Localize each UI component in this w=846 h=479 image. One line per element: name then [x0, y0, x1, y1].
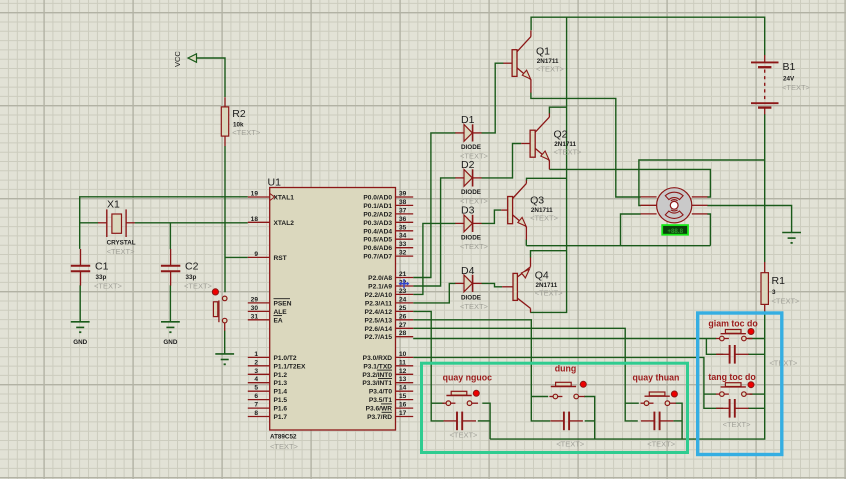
svg-text:10: 10	[399, 351, 407, 358]
U1 pin 8 (P1.7)	[248, 410, 288, 421]
svg-text:dung: dung	[555, 364, 577, 374]
svg-text:CRYSTAL: CRYSTAL	[107, 240, 136, 247]
svg-text:26: 26	[399, 313, 407, 320]
U1 pin 37 (P0.2/AD2)	[363, 207, 413, 218]
wire crystal right to XTAL2	[135, 222, 248, 224]
svg-text:4: 4	[254, 376, 258, 383]
U1 pin 14 (P3.4/T0)	[369, 385, 413, 396]
wire D2 cathode to Q2 base	[482, 144, 522, 178]
svg-text:P1.5: P1.5	[274, 397, 288, 404]
svg-text:34: 34	[399, 233, 407, 240]
U1 pin 25 (P2.4/A12)	[365, 305, 414, 316]
svg-text:P2.0/A8: P2.0/A8	[368, 275, 392, 282]
svg-text:<TEXT>: <TEXT>	[460, 242, 489, 251]
wire supply vertical drop	[530, 17, 566, 312]
wire P2.7 pin28 to giam-toc-do	[413, 339, 723, 355]
svg-text:quay nguoc: quay nguoc	[443, 372, 492, 382]
svg-text:RST: RST	[274, 255, 287, 262]
svg-text:Q2: Q2	[554, 129, 568, 141]
svg-text:B1: B1	[783, 61, 796, 73]
svg-text:<TEXT>: <TEXT>	[460, 302, 489, 311]
U1 pin 35 (P0.4/AD4)	[363, 224, 413, 235]
U1 pin 12 (P3.2/INT0)	[362, 368, 413, 379]
svg-text:29: 29	[251, 296, 259, 303]
wire Q1 emitter to motor top-left	[531, 93, 641, 198]
transistor Q4	[502, 257, 563, 312]
svg-text:XTAL1: XTAL1	[274, 195, 295, 202]
svg-text:<TEXT>: <TEXT>	[782, 83, 811, 92]
wire battery negative rail	[639, 114, 765, 262]
motor M1	[641, 188, 708, 223]
capacitor (quay nguoc)	[444, 412, 479, 440]
button dung	[549, 364, 586, 399]
svg-text:+88.8: +88.8	[667, 228, 683, 235]
wire motor bottom bus	[526, 245, 710, 247]
U1 pin 21 (P2.0/A8)	[368, 271, 413, 282]
svg-text:<TEXT>: <TEXT>	[647, 440, 676, 449]
svg-text:<TEXT>: <TEXT>	[554, 148, 583, 157]
svg-text:VCC: VCC	[173, 51, 182, 67]
svg-text:24: 24	[399, 296, 407, 303]
svg-text:C1: C1	[95, 261, 109, 273]
svg-text:9: 9	[254, 251, 258, 258]
svg-text:<TEXT>: <TEXT>	[769, 359, 798, 368]
svg-text:P3.7/RD: P3.7/RD	[367, 414, 392, 421]
U1 pin 15 (P3.5/T1)	[369, 393, 413, 404]
U1 pin 36 (P0.3/AD3)	[363, 216, 413, 227]
capacitor (dung)	[550, 412, 584, 449]
U1 pin 24 (P2.3/A11)	[365, 296, 413, 307]
capacitor (tang toc do)	[716, 399, 751, 429]
wire C1 to ground	[79, 285, 81, 322]
svg-text:P2.1/A9: P2.1/A9	[368, 284, 392, 291]
button quay thuan	[633, 372, 680, 405]
wire P2.3 pin24 to D4 anode	[413, 283, 455, 303]
wire quay-thuan right node	[673, 403, 682, 439]
svg-text:R2: R2	[232, 108, 246, 120]
wire VCC to R2	[197, 58, 226, 97]
wire crystal left stub	[80, 222, 99, 224]
motor speed display	[662, 225, 688, 235]
reset push button	[212, 289, 227, 323]
wire Q2 emitter to motor top-right	[549, 169, 710, 197]
U1 pin 38 (P0.1/AD1)	[363, 199, 413, 210]
U1 pin 6 (P1.5)	[248, 393, 288, 404]
svg-text:Q4: Q4	[535, 269, 549, 281]
svg-text:1: 1	[254, 351, 258, 358]
U1 pin 7 (P1.6)	[248, 402, 288, 413]
svg-text:P0.5/AD5: P0.5/AD5	[363, 237, 392, 244]
U1 pin 17 (P3.7/RD)	[367, 410, 413, 421]
svg-text:D4: D4	[461, 265, 475, 277]
svg-text:33p: 33p	[186, 274, 197, 281]
U1 pin 10 (P3.0/RXD)	[363, 351, 414, 362]
U1 pin 29 (PSEN)	[248, 296, 292, 307]
ground (reset button)	[215, 354, 234, 365]
svg-text:P3.4/T0: P3.4/T0	[369, 389, 392, 396]
transistor Q3	[501, 180, 559, 239]
ground (motor return)	[782, 233, 801, 244]
U1 pin 3 (P1.2)	[248, 368, 288, 379]
highlight box (blue) around speed buttons	[698, 313, 782, 455]
U1 pin 5 (P1.4)	[248, 385, 288, 396]
wire motor mid-right to ground	[707, 206, 791, 233]
svg-text:X1: X1	[107, 199, 120, 211]
U1 pin 22 (P2.1/A9)	[368, 280, 413, 291]
svg-text:3: 3	[254, 368, 258, 375]
svg-text:D2: D2	[461, 159, 475, 171]
resistor R2	[221, 97, 261, 146]
svg-text:P2.5/A13: P2.5/A13	[365, 317, 393, 324]
diode D4	[455, 265, 488, 311]
diode D2	[455, 159, 488, 206]
svg-text:19: 19	[251, 191, 259, 198]
svg-text:<TEXT>: <TEXT>	[536, 65, 565, 74]
wire reset button to ground	[224, 323, 226, 354]
svg-text:giam toc do: giam toc do	[708, 319, 758, 329]
wire Q3 collector to rail	[527, 178, 567, 180]
svg-text:21: 21	[399, 271, 407, 278]
svg-text:12: 12	[399, 368, 407, 375]
svg-text:U1: U1	[268, 177, 282, 189]
svg-text:38: 38	[399, 199, 407, 206]
svg-text:28: 28	[399, 330, 407, 337]
svg-text:DIODE: DIODE	[461, 295, 481, 302]
button tang toc do	[708, 372, 756, 397]
wire P2.2 pin23 to D3 anode	[413, 223, 455, 294]
svg-text:18: 18	[251, 216, 259, 223]
svg-text:P0.2/AD2: P0.2/AD2	[363, 211, 392, 218]
svg-text:16: 16	[399, 402, 407, 409]
capacitor C1	[71, 249, 123, 291]
U1 pin 23 (P2.2/A10)	[365, 288, 414, 299]
U1 pin 18 (XTAL2)	[248, 216, 294, 227]
wire Q2 collector to rail	[549, 107, 566, 113]
highlight box (teal) around direction buttons	[422, 363, 688, 452]
svg-text:XTAL2: XTAL2	[274, 220, 295, 227]
svg-text:DIODE: DIODE	[461, 144, 481, 151]
wire P2.4 pin25 to quay-nguoc	[413, 311, 444, 421]
svg-text:ALE: ALE	[274, 309, 288, 316]
wire dung right node	[584, 397, 595, 440]
button giam toc do	[708, 319, 758, 341]
svg-text:33p: 33p	[96, 274, 107, 281]
svg-text:P0.4/AD4: P0.4/AD4	[363, 228, 392, 235]
svg-text:15: 15	[399, 393, 407, 400]
U1 pin 30 (ALE)	[248, 305, 287, 316]
wire top supply rail	[531, 17, 765, 55]
U1 pin 11 (P3.1/TXD)	[363, 359, 413, 370]
svg-text:7: 7	[254, 402, 258, 409]
svg-text:P0.0/AD0: P0.0/AD0	[363, 195, 392, 202]
capacitor C2	[161, 249, 213, 291]
svg-text:<TEXT>: <TEXT>	[184, 282, 213, 291]
svg-text:24V: 24V	[783, 76, 795, 83]
resistor R1	[761, 262, 800, 311]
svg-text:P1.2: P1.2	[274, 372, 288, 379]
svg-text:P3.0/RXD: P3.0/RXD	[363, 355, 393, 362]
wire giam switch right	[748, 338, 765, 340]
pin cursor marker at pin 22	[399, 279, 410, 288]
svg-text:P3.5/T1: P3.5/T1	[369, 397, 392, 404]
U1 pin 32 (P0.7/AD7)	[363, 250, 413, 261]
svg-text:DIODE: DIODE	[461, 189, 481, 196]
svg-text:<TEXT>: <TEXT>	[723, 420, 752, 429]
wire D1 cathode to Q1 base	[482, 63, 504, 133]
svg-text:31: 31	[251, 313, 259, 320]
svg-text:<TEXT>: <TEXT>	[450, 431, 479, 440]
diode D3	[455, 205, 488, 252]
svg-text:P1.0/T2: P1.0/T2	[274, 355, 297, 362]
svg-text:35: 35	[399, 224, 407, 231]
U1 pin 13 (P3.3/INT1)	[362, 376, 413, 387]
U1 pin 2 (P1.1/T2EX)	[248, 359, 306, 370]
U1 pin 28 (P2.7/A15)	[365, 330, 414, 341]
wire Q3 emitter down	[525, 240, 527, 246]
svg-text:25: 25	[399, 305, 407, 312]
svg-text:5: 5	[254, 385, 258, 392]
wire D4 cathode to Q4 base	[482, 283, 503, 286]
svg-text:P0.3/AD3: P0.3/AD3	[363, 220, 392, 227]
IC U1 AT89C52 body	[268, 177, 396, 452]
svg-text:P2.2/A10: P2.2/A10	[365, 292, 393, 299]
svg-text:P0.1/AD1: P0.1/AD1	[363, 203, 392, 210]
svg-text:P3.6/WR: P3.6/WR	[366, 406, 393, 413]
svg-text:<TEXT>: <TEXT>	[772, 297, 801, 306]
svg-text:P1.4: P1.4	[274, 389, 288, 396]
transistor Q2	[521, 113, 582, 169]
capacitor (giam toc do)	[716, 345, 798, 368]
U1 pin 27 (P2.6/A14)	[365, 322, 414, 333]
svg-text:<TEXT>: <TEXT>	[94, 282, 123, 291]
svg-text:P1.1/T2EX: P1.1/T2EX	[274, 363, 306, 370]
wire quay-nguoc right node	[478, 403, 490, 439]
battery B1	[751, 55, 811, 114]
svg-text:Q3: Q3	[530, 194, 544, 206]
wire Q4 emitter to rail	[531, 251, 567, 258]
svg-text:<TEXT>: <TEXT>	[530, 214, 559, 223]
svg-text:2: 2	[254, 359, 258, 366]
U1 pin 26 (P2.5/A13)	[365, 313, 414, 324]
svg-text:32: 32	[399, 250, 407, 257]
wire C2 tap	[169, 223, 171, 249]
svg-text:P2.4/A12: P2.4/A12	[365, 309, 393, 316]
wire C2 to ground	[169, 285, 171, 322]
svg-text:14: 14	[399, 385, 407, 392]
wire P3.0 pin10 to tang-toc-do	[413, 357, 723, 408]
wire tang cap right	[748, 407, 765, 409]
U1 pin 39 (P0.0/AD0)	[363, 191, 413, 202]
svg-text:3: 3	[772, 289, 776, 296]
svg-text:P2.7/A15: P2.7/A15	[365, 334, 393, 341]
U1 pin 34 (P0.5/AD5)	[363, 233, 413, 244]
svg-text:R1: R1	[772, 275, 786, 287]
power symbol VCC	[173, 51, 197, 67]
svg-text:D1: D1	[461, 114, 475, 126]
svg-text:30: 30	[251, 305, 259, 312]
svg-text:P0.6/AD6: P0.6/AD6	[363, 245, 392, 252]
U1 pin 1 (P1.0/T2)	[248, 351, 297, 362]
U1 pin 33 (P0.6/AD6)	[363, 241, 413, 252]
svg-text:<TEXT>: <TEXT>	[107, 247, 136, 256]
wire R2 to RST node	[224, 146, 226, 292]
svg-text:P2.3/A11: P2.3/A11	[365, 300, 392, 307]
svg-text:<TEXT>: <TEXT>	[535, 289, 564, 298]
wire R1 to button bus	[490, 311, 765, 439]
svg-text:17: 17	[399, 410, 407, 417]
U1 pin 4 (P1.3)	[248, 376, 288, 387]
svg-text:<TEXT>: <TEXT>	[232, 128, 261, 137]
svg-text:PSEN: PSEN	[274, 300, 292, 307]
svg-text:DIODE: DIODE	[461, 235, 481, 242]
svg-text:P3.2/INT0: P3.2/INT0	[362, 372, 392, 379]
svg-text:GND: GND	[163, 339, 177, 346]
ground (C1)	[71, 322, 90, 346]
wire P2.5 pin26 to dung	[413, 320, 550, 421]
button quay nguoc	[442, 372, 492, 405]
capacitor (quay thuan)	[641, 412, 676, 449]
svg-text:tang toc do: tang toc do	[708, 372, 756, 382]
svg-text:P1.6: P1.6	[274, 406, 288, 413]
wire D3 cathode to Q3 base	[482, 210, 502, 223]
svg-text:<TEXT>: <TEXT>	[556, 440, 585, 449]
wire P2.0 pin21 to D1 anode	[413, 133, 455, 278]
U1 pin 31 (EA)	[248, 313, 283, 324]
svg-text:13: 13	[399, 376, 407, 383]
svg-text:33: 33	[399, 241, 407, 248]
svg-text:P1.7: P1.7	[274, 414, 288, 421]
svg-text:39: 39	[399, 191, 407, 198]
svg-text:P3.3/INT1: P3.3/INT1	[362, 380, 392, 387]
wire RST node to U1 RST pin	[225, 256, 248, 258]
svg-text:GND: GND	[73, 339, 87, 346]
wire XTAL1 line	[80, 197, 248, 249]
U1 pin 19 (XTAL1)	[248, 191, 294, 202]
svg-text:<TEXT>: <TEXT>	[270, 442, 299, 451]
svg-text:D3: D3	[461, 205, 475, 217]
wire motor bottom-right riser	[707, 214, 710, 246]
svg-text:37: 37	[399, 207, 407, 214]
svg-text:8: 8	[254, 410, 258, 417]
wire giam cap right	[748, 353, 765, 355]
svg-text:P0.7/AD7: P0.7/AD7	[363, 254, 392, 261]
svg-text:11: 11	[399, 359, 406, 366]
svg-text:P2.6/A14: P2.6/A14	[365, 326, 393, 333]
U1 pin 9 (RST)	[248, 251, 287, 262]
diode D1	[455, 114, 488, 161]
svg-text:27: 27	[399, 322, 407, 329]
wire motor bottom-left riser	[621, 214, 641, 246]
svg-text:quay thuan: quay thuan	[633, 372, 680, 382]
svg-text:AT89C52: AT89C52	[270, 433, 297, 440]
svg-text:P3.1/TXD: P3.1/TXD	[363, 363, 392, 370]
svg-text:EA: EA	[274, 317, 283, 324]
svg-text:P1.3: P1.3	[274, 380, 288, 387]
wire P2.6 pin27 to quay-thuan	[413, 328, 639, 421]
wire tang switch right	[750, 393, 765, 395]
svg-text:23: 23	[399, 288, 407, 295]
svg-text:C2: C2	[185, 261, 199, 273]
crystal X1	[98, 199, 136, 257]
wire P2.1 pin22 to D2 anode	[413, 178, 455, 286]
U1 pin 16 (P3.6/WR)	[366, 402, 414, 413]
svg-text:Q1: Q1	[536, 46, 550, 58]
svg-text:6: 6	[254, 393, 258, 400]
transistor Q1	[503, 30, 564, 92]
ground (C2)	[161, 322, 180, 346]
svg-text:36: 36	[399, 216, 407, 223]
